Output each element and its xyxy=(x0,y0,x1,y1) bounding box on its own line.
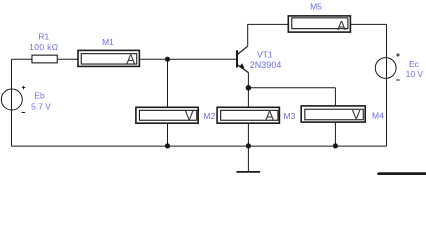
svg-text:Eb: Eb xyxy=(34,90,45,100)
voltmeter M4 xyxy=(301,106,384,122)
svg-text:R1: R1 xyxy=(38,31,49,41)
wire: M4 branch down xyxy=(334,88,336,107)
wire: emitter node right to M4 branch xyxy=(248,87,335,89)
svg-text:M3: M3 xyxy=(284,111,296,121)
ammeter M5 xyxy=(288,2,350,34)
wire: M1 to transistor base xyxy=(140,58,237,60)
wire: right vertical through Ec xyxy=(386,24,388,146)
svg-text:A: A xyxy=(126,52,135,67)
svg-text:M1: M1 xyxy=(102,37,114,47)
wire: M5 right to top-right corner xyxy=(351,23,387,25)
ammeter M1 xyxy=(78,37,139,67)
svg-text:100 kΩ: 100 kΩ xyxy=(29,42,58,52)
svg-text:M2: M2 xyxy=(203,111,215,121)
node: emitter junction xyxy=(246,85,252,91)
wire: collector up and to M5 xyxy=(248,24,289,46)
wire: emitter node to M3 xyxy=(247,88,249,108)
transistor VT1 2N3904 xyxy=(237,46,281,72)
ground xyxy=(236,146,260,172)
wire: M2 down to ground rail xyxy=(167,123,169,146)
ground rail (bottom wire) xyxy=(12,145,387,147)
svg-text:A: A xyxy=(337,18,346,33)
svg-text:A: A xyxy=(265,108,274,123)
svg-text:V: V xyxy=(185,108,194,123)
svg-text:V: V xyxy=(352,107,361,122)
voltage source Eb xyxy=(1,59,51,146)
resistor R1 xyxy=(29,31,58,62)
svg-text:M4: M4 xyxy=(372,111,384,121)
node: M4 on rail xyxy=(333,143,338,148)
svg-text:5.7 V: 5.7 V xyxy=(31,101,51,111)
svg-text:10 V: 10 V xyxy=(406,69,424,79)
wire: M3 down to rail xyxy=(247,123,249,146)
svg-text:2N3904: 2N3904 xyxy=(250,60,282,70)
wire: R1 to M1 xyxy=(58,58,78,60)
voltage source Ec xyxy=(375,53,423,80)
svg-text:Ec: Ec xyxy=(409,59,420,69)
node: M3/ground on rail xyxy=(246,143,251,148)
node: M2 on rail xyxy=(165,143,170,148)
voltmeter M2 xyxy=(136,107,216,123)
node: junction of base wire and M2 branch xyxy=(165,57,170,62)
ammeter M3 xyxy=(217,107,295,123)
svg-text:M5: M5 xyxy=(310,2,322,12)
wire: emitter down to node xyxy=(247,73,249,88)
svg-text:VT1: VT1 xyxy=(257,50,273,60)
decorative dark bar bottom right xyxy=(377,172,426,175)
wire: M4 down to rail xyxy=(334,123,336,146)
wire: left horizontal from Eb branch to R1 xyxy=(12,58,33,60)
wire: junction down to M2 xyxy=(167,59,169,107)
